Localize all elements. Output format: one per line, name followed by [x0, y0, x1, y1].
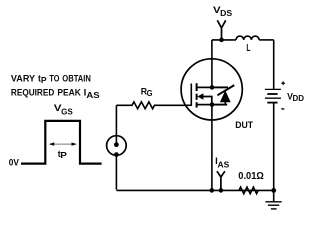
svg-text:L: L [246, 42, 250, 54]
svg-text:DS: DS [220, 9, 233, 18]
label VDS [213, 5, 233, 18]
svg-text:DUT: DUT [235, 120, 253, 131]
wire generator top to RG corner [115, 105, 117, 144]
battery BT1 [265, 89, 281, 102]
svg-text:OBTAIN: OBTAIN [62, 74, 91, 85]
body diode anode stem [224, 101, 226, 105]
resistor R1 0.01ohm [239, 187, 258, 194]
label VDD [287, 91, 304, 103]
bottom rail wire [116, 189, 273, 191]
ground symbol [265, 190, 281, 209]
VDS junction dot [219, 38, 224, 43]
source junction dot [210, 102, 215, 107]
channel segment top [196, 83, 198, 91]
svg-text:0.01Ω: 0.01Ω [238, 171, 263, 182]
right rail bottom wire [273, 103, 275, 191]
source wire down [211, 105, 213, 191]
drain junction dot [210, 85, 215, 90]
note text line 1 [11, 74, 91, 86]
svg-text:G: G [147, 89, 153, 98]
IAS probe junction dot [219, 188, 224, 193]
body diode zener bar [217, 85, 234, 95]
svg-text:VARY: VARY [11, 74, 36, 85]
svg-text:REQUIRED: REQUIRED [11, 87, 54, 98]
right rail top wire [273, 40, 275, 90]
svg-text:0V: 0V [9, 158, 20, 169]
ground junction dot [271, 188, 276, 193]
svg-text:AS: AS [86, 91, 100, 100]
body connection wire with arrow [197, 93, 212, 104]
drain wire up [211, 40, 213, 88]
source rail junction dot [210, 188, 215, 193]
svg-text:P: P [41, 76, 47, 85]
tp width arrow [49, 142, 77, 145]
wire inductor to right rail [259, 39, 274, 41]
mosfet U1 (DUT) circle [181, 59, 242, 120]
body diode bottom lead [212, 104, 227, 106]
battery minus sign [281, 108, 284, 110]
note text line 2 [11, 87, 100, 100]
pulse generator G1 [107, 136, 127, 157]
svg-text:GS: GS [61, 108, 73, 117]
battery plus sign [281, 81, 285, 85]
svg-text:PEAK: PEAK [57, 87, 81, 98]
channel segment middle [196, 94, 198, 100]
wire generator bottom to bottom rail [115, 155, 117, 190]
label VGS [54, 103, 73, 117]
IAS probe [217, 171, 225, 190]
resistor RG [116, 102, 190, 109]
label tp [58, 149, 68, 160]
body diode D1 (zener) top lead [212, 86, 228, 88]
svg-text:P: P [60, 151, 67, 160]
svg-text:TO: TO [49, 74, 59, 85]
inductor L [236, 36, 259, 40]
gate bar [190, 84, 192, 107]
VGS pulse waveform [21, 121, 102, 164]
drain connect wire [197, 86, 212, 88]
channel segment bottom [196, 102, 198, 107]
svg-text:AS: AS [218, 161, 230, 170]
body diode triangle [220, 90, 231, 102]
source connect wire [197, 104, 212, 106]
top rail wire [212, 39, 236, 41]
svg-text:DD: DD [293, 94, 305, 103]
label IAS [215, 156, 230, 170]
label RG [141, 87, 153, 99]
VDS probe [217, 20, 225, 40]
